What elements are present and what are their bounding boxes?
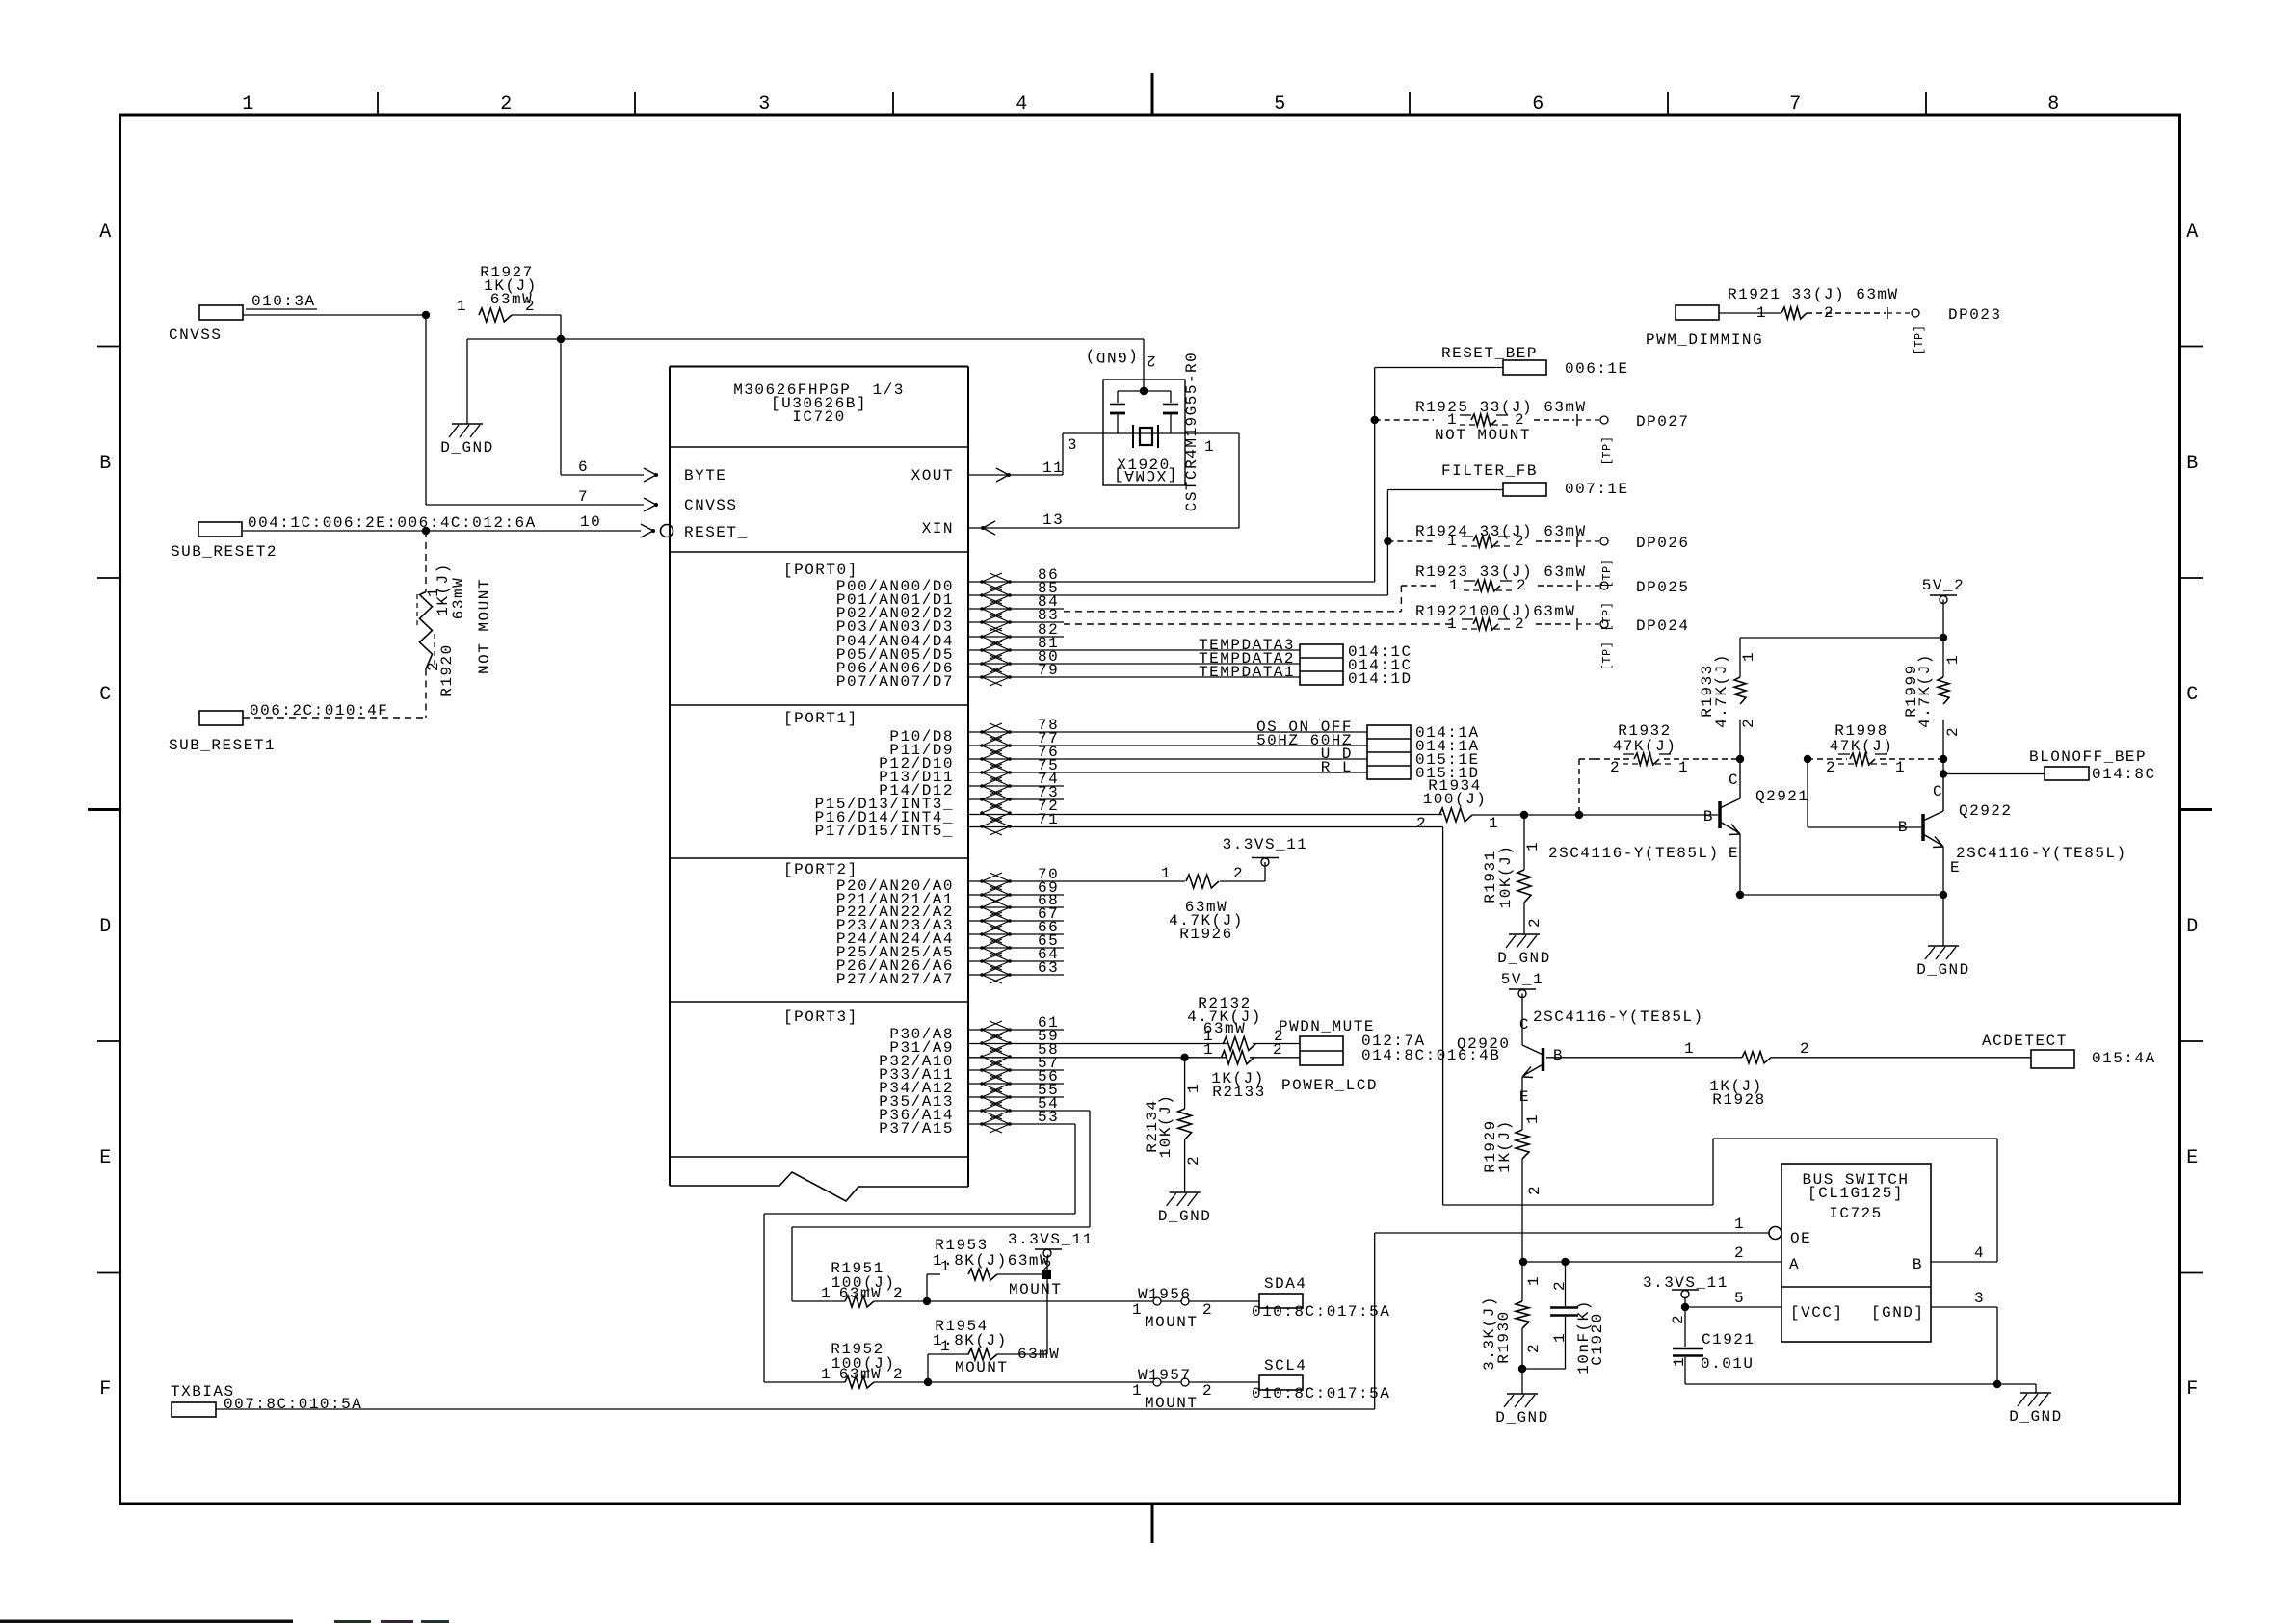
svg-text:[PORT0]: [PORT0] <box>783 562 858 579</box>
wire pin72 to R1934 <box>968 814 1442 816</box>
wire pin85 to FILTER_FB riser <box>968 594 1387 596</box>
resistor R1954 <box>928 1353 969 1355</box>
svg-text:F: F <box>99 1378 113 1400</box>
resistor R1930 vertical <box>1521 1262 1523 1301</box>
wire pin84 stub + dashed to R1923 branch <box>968 608 1064 610</box>
wire OE line from TXBIAS riser <box>1375 1232 1769 1234</box>
svg-text:63mW: 63mW <box>839 1366 882 1383</box>
svg-text:F: F <box>2186 1378 2200 1400</box>
svg-text:11: 11 <box>1042 459 1064 477</box>
wire R1928 to ACDETECT <box>1771 1057 2031 1059</box>
svg-text:[PORT2]: [PORT2] <box>783 861 858 878</box>
wire XIN pin 13 from crystal <box>968 527 1239 529</box>
svg-text:7: 7 <box>578 488 589 506</box>
svg-text:R1930: R1930 <box>1495 1310 1513 1364</box>
resistor R2133 <box>1222 1051 1254 1064</box>
svg-text:63mW: 63mW <box>1203 1020 1246 1037</box>
svg-text:014:1D: 014:1D <box>1348 670 1412 688</box>
connector TEMPDATA 3-way box <box>1300 644 1343 685</box>
wire junction to Q2921 base <box>1524 814 1718 816</box>
wire W1957 to SCL4 <box>1189 1381 1259 1383</box>
wire RESET_BEP to pin86 riser <box>1375 367 1503 369</box>
svg-text:DP026: DP026 <box>1636 535 1690 552</box>
svg-text:4.7K(J): 4.7K(J) <box>1713 653 1730 728</box>
node junction CNVSS/R1927 <box>422 311 430 319</box>
power 5V_2 <box>1930 594 1957 596</box>
connector SUB_RESET2 box <box>198 522 242 537</box>
svg-text:007:8C:010:5A: 007:8C:010:5A <box>224 1396 362 1413</box>
wire junction up to R1953 <box>926 1274 928 1301</box>
svg-text:007:1E: 007:1E <box>1565 481 1629 498</box>
wire SCL line <box>764 1381 845 1383</box>
svg-text:1.8K(J)63mW: 1.8K(J)63mW <box>933 1252 1050 1270</box>
ground D_GND below R2134 <box>1170 1191 1201 1193</box>
svg-text:[CL1G125]: [CL1G125] <box>1808 1185 1904 1202</box>
svg-text:4.7K(J): 4.7K(J) <box>1916 653 1934 728</box>
wire VCC pin 5 <box>1685 1306 1781 1308</box>
node junction dashed R1932 drop <box>1575 811 1583 819</box>
RESET_ active-low bubble <box>661 525 673 537</box>
svg-text:3: 3 <box>758 93 772 116</box>
svg-text:B: B <box>1913 1256 1923 1273</box>
wire emitter rail Q2921/Q2922 <box>1736 891 1744 899</box>
wire TXBIAS to OE riser <box>216 1408 1375 1410</box>
wire C1921 to GND rail <box>1685 1383 1997 1385</box>
svg-text:D_GND: D_GND <box>440 439 494 457</box>
svg-text:7: 7 <box>1789 93 1803 116</box>
crystal GND pin 2 lead <box>1143 339 1145 391</box>
wire pin83 stub + dashed to R1922 <box>968 621 1064 623</box>
svg-text:CNVSS: CNVSS <box>169 327 223 344</box>
resistor R1934 <box>1439 808 1472 822</box>
svg-text:OE: OE <box>1790 1230 1811 1247</box>
svg-text:010:8C:017:5A: 010:8C:017:5A <box>1252 1303 1390 1321</box>
wire R1932 dashed drop to base line <box>1578 759 1580 815</box>
svg-text:R1922100(J)63mW: R1922100(J)63mW <box>1415 603 1576 620</box>
svg-text:5: 5 <box>1274 93 1287 116</box>
wire pin71 corner down <box>968 826 1443 828</box>
grid row ticks left <box>97 346 119 348</box>
wire pin74 stub <box>968 785 1064 787</box>
op IC720 M30626FHPGP block outline <box>669 367 671 1187</box>
svg-text:[XCMA]: [XCMA] <box>1113 466 1177 484</box>
svg-text:W1956: W1956 <box>1138 1286 1192 1303</box>
node junction R1999/R1998 dashed <box>1940 755 1947 763</box>
node junction R1924 tap <box>1384 537 1391 545</box>
wire SDA line <box>792 1300 845 1302</box>
svg-text:[TP]: [TP] <box>1600 436 1614 466</box>
svg-text:47K(J): 47K(J) <box>1613 738 1677 755</box>
ground D_GND below R1931 <box>1509 933 1540 935</box>
resistor R1999 vertical <box>1942 638 1944 677</box>
svg-text:(GND): (GND) <box>1084 348 1138 365</box>
svg-text:8: 8 <box>2047 93 2061 116</box>
svg-text:ACDETECT: ACDETECT <box>1982 1033 2068 1050</box>
svg-text:1: 1 <box>1161 865 1172 882</box>
svg-text:E: E <box>1729 845 1739 862</box>
wire pin58 to R2133 <box>968 1057 1226 1059</box>
svg-text:10K(J): 10K(J) <box>1157 1094 1174 1159</box>
svg-text:2: 2 <box>1551 1280 1569 1291</box>
wire 3.3VS riser down to R1954 <box>1046 1274 1048 1354</box>
svg-text:R1926: R1926 <box>1179 926 1233 943</box>
test point DP025 <box>1576 580 1578 591</box>
ground D_GND bottom right <box>2020 1392 2051 1394</box>
svg-text:1: 1 <box>1678 759 1689 776</box>
test point DP026 <box>1576 536 1578 547</box>
connector PWDN_MUTE 2-way box <box>1300 1036 1343 1065</box>
wire R1934 to junction <box>1472 814 1524 816</box>
wire R1998 tap to Q2922 base <box>1807 759 1808 827</box>
wire pin86 to RESET_BEP riser <box>968 581 1375 583</box>
svg-text:D: D <box>99 916 113 938</box>
svg-text:1: 1 <box>1551 1332 1569 1343</box>
wire SDA to W1956 <box>927 1300 1153 1302</box>
ground D_GND below R1930 <box>1507 1393 1538 1395</box>
svg-text:71: 71 <box>1038 811 1059 828</box>
svg-text:2: 2 <box>1185 1155 1202 1165</box>
svg-text:014:8C: 014:8C <box>2092 766 2156 783</box>
svg-text:C: C <box>1933 783 1943 800</box>
svg-text:2SC4116-Y(TE85L): 2SC4116-Y(TE85L) <box>1533 1008 1704 1026</box>
node junction VCC <box>1681 1303 1689 1311</box>
svg-text:[GND]: [GND] <box>1871 1304 1925 1322</box>
crystal right capacitor <box>1170 391 1172 403</box>
svg-text:1.8K(J): 1.8K(J) <box>933 1332 1008 1349</box>
svg-text:R1921 33(J) 63mW: R1921 33(J) 63mW <box>1728 286 1899 303</box>
wire to ground <box>1942 895 1944 946</box>
capacitor C1921 <box>1684 1307 1686 1347</box>
wire SUB_RESET2 to IC720 RESET_ pin 10 <box>243 530 641 532</box>
wire CNVSS down to IC720 pin 7 <box>425 315 427 505</box>
test point DP023 <box>1887 307 1888 319</box>
svg-text:2: 2 <box>1826 759 1836 776</box>
wire pin81 to TEMPDATA3 <box>968 649 1300 651</box>
svg-text:XIN: XIN <box>922 520 954 537</box>
ground D_GND below Q2922 <box>1928 945 1959 947</box>
svg-text:B: B <box>99 453 113 475</box>
svg-text:2: 2 <box>1416 815 1427 832</box>
svg-text:1: 1 <box>1185 1083 1202 1093</box>
wire XOUT pin 11 to crystal <box>968 474 1063 476</box>
svg-text:C: C <box>1729 772 1739 789</box>
svg-text:C: C <box>99 684 113 706</box>
IC720 jagged bottom break <box>670 1172 968 1201</box>
svg-text:100(J): 100(J) <box>1423 791 1488 808</box>
svg-text:[PORT3]: [PORT3] <box>783 1008 858 1026</box>
wire pin77 to 50HZ_60HZ box <box>968 745 1367 746</box>
wire ground line to crystal <box>467 338 1144 340</box>
resistor R1924 row dashed <box>1387 540 1434 542</box>
svg-text:63mW: 63mW <box>450 577 467 619</box>
connector FILTER_FB box <box>1503 483 1546 496</box>
wire R1921 dashed to DP023 test point <box>1807 312 1886 314</box>
svg-text:TEMPDATA1: TEMPDATA1 <box>1199 664 1295 681</box>
node junction R1953/3.3VS <box>1042 1270 1051 1279</box>
IC720 section dividers <box>670 446 968 448</box>
svg-text:10K(J): 10K(J) <box>1497 845 1515 909</box>
svg-text:B: B <box>1553 1047 1564 1064</box>
svg-text:D_GND: D_GND <box>1495 1409 1549 1427</box>
svg-text:RESET_: RESET_ <box>684 524 749 541</box>
svg-text:R1924 33(J) 63mW: R1924 33(J) 63mW <box>1415 523 1587 540</box>
svg-text:010:8C:017:5A: 010:8C:017:5A <box>1252 1385 1390 1402</box>
wire Q2920 base to R1928 <box>1546 1057 1742 1059</box>
svg-text:010:3A: 010:3A <box>251 293 316 310</box>
svg-text:2: 2 <box>1526 917 1544 928</box>
connector TXBIAS box <box>172 1402 216 1417</box>
svg-text:DP023: DP023 <box>1948 306 2002 324</box>
resistor R1920 dashed vertical (not mount) <box>425 531 427 592</box>
resistor R1998 dashed row <box>1804 755 1811 763</box>
svg-text:P37/A15: P37/A15 <box>879 1120 954 1138</box>
svg-text:DP027: DP027 <box>1636 413 1690 431</box>
svg-text:2: 2 <box>1670 1314 1687 1324</box>
svg-text:1: 1 <box>1944 654 1962 665</box>
power 5V_1 <box>1509 988 1536 990</box>
wire R2132 to PWDN_MUTE box <box>1253 1043 1300 1045</box>
svg-text:006:1E: 006:1E <box>1565 360 1629 378</box>
node junction R1925 tap <box>1371 416 1379 424</box>
svg-text:5: 5 <box>1734 1290 1745 1307</box>
svg-text:1K(J): 1K(J) <box>1496 1119 1514 1173</box>
wire SCL to W1957 <box>928 1381 1153 1383</box>
svg-text:53: 53 <box>1038 1109 1059 1126</box>
svg-text:BYTE: BYTE <box>684 467 726 484</box>
wire R1927 pin2 corner down to BYTE <box>512 314 561 316</box>
svg-text:CNVSS: CNVSS <box>684 497 738 514</box>
wire pin75 to R_L box <box>968 772 1367 773</box>
svg-text:2: 2 <box>1526 1185 1544 1195</box>
svg-text:D_GND: D_GND <box>1916 961 1970 979</box>
connector SCL4 box <box>1259 1375 1303 1390</box>
node junction GND rail <box>1993 1380 2001 1388</box>
wire R2133 to PWDN_MUTE box <box>1250 1057 1300 1059</box>
svg-text:2: 2 <box>500 93 514 116</box>
svg-text:2SC4116-Y(TE85L): 2SC4116-Y(TE85L) <box>1548 845 1720 862</box>
svg-text:B: B <box>1898 819 1909 836</box>
wire pin61 stub <box>968 1029 1064 1031</box>
svg-text:47K(J): 47K(J) <box>1830 738 1894 755</box>
wire pin59 to R2132 <box>968 1043 1227 1045</box>
wire PWM_DIMMING to R1921 <box>1719 312 1781 314</box>
svg-text:B: B <box>1703 808 1714 825</box>
wire pin73 stub <box>968 798 1064 800</box>
node junction BLONOFF_BEP tap <box>1940 770 1947 777</box>
svg-text:1: 1 <box>1740 651 1757 662</box>
wire R1953 to 3.3VS riser <box>997 1273 1046 1275</box>
wires port3 stubs 57,56,55 <box>968 1069 1064 1071</box>
wire pin71 net to IC725 B-net <box>1443 1204 1713 1206</box>
svg-text:1: 1 <box>242 93 255 116</box>
svg-text:E: E <box>2186 1147 2200 1169</box>
svg-text:D_GND: D_GND <box>1158 1208 1212 1225</box>
crystal through wire <box>1063 432 1239 434</box>
svg-text:0.01U: 0.01U <box>1701 1355 1755 1373</box>
svg-text:Q2922: Q2922 <box>1959 802 2013 820</box>
svg-text:E: E <box>1519 1088 1530 1106</box>
svg-text:10: 10 <box>580 513 601 531</box>
wire to IC720 BYTE pin 6 <box>561 474 644 476</box>
svg-text:1: 1 <box>1524 841 1542 851</box>
svg-text:2: 2 <box>1734 1244 1745 1262</box>
svg-text:1: 1 <box>1489 815 1499 832</box>
svg-text:1: 1 <box>1525 1275 1543 1286</box>
resistor R1929 vertical <box>1521 1114 1523 1130</box>
wire GND rail stub <box>1997 1383 2036 1385</box>
svg-text:D: D <box>2186 916 2200 938</box>
svg-text:13: 13 <box>1042 511 1064 529</box>
wire pin76 to U_D box <box>968 758 1367 760</box>
svg-text:2: 2 <box>1525 1343 1543 1353</box>
svg-text:1: 1 <box>1756 304 1767 322</box>
wire R1926 to 3.3VS_11 riser <box>1220 880 1265 882</box>
node junction R1930 bottom <box>1518 1365 1526 1373</box>
grid column ticks top <box>377 92 379 115</box>
svg-text:R1920: R1920 <box>438 643 456 697</box>
node junction R1953 tap <box>923 1297 931 1305</box>
svg-text:2: 2 <box>1610 759 1621 776</box>
svg-text:2: 2 <box>1202 1301 1213 1319</box>
svg-text:Q2920: Q2920 <box>1457 1035 1511 1053</box>
svg-text:W1957: W1957 <box>1138 1367 1192 1384</box>
node junction R1930 top <box>1519 1258 1527 1266</box>
svg-text:2SC4116-Y(TE85L): 2SC4116-Y(TE85L) <box>1956 845 2127 862</box>
wires port2 stubs 69-63 <box>968 894 1064 896</box>
svg-text:2: 2 <box>1273 1041 1283 1059</box>
svg-text:DP025: DP025 <box>1636 579 1690 596</box>
wire pin54 route to SDA riser <box>968 1110 1090 1112</box>
svg-text:PWDN_MUTE: PWDN_MUTE <box>1279 1018 1375 1035</box>
svg-text:63mW: 63mW <box>839 1285 882 1302</box>
svg-text:R1925 33(J) 63mW: R1925 33(J) 63mW <box>1415 399 1587 416</box>
svg-text:PWM_DIMMING: PWM_DIMMING <box>1646 331 1763 349</box>
svg-text:1: 1 <box>1684 1040 1695 1058</box>
wire W1956 to SDA4 <box>1189 1300 1259 1302</box>
node junction R2134 tap <box>1180 1054 1188 1061</box>
svg-text:2: 2 <box>1800 1040 1810 1058</box>
wire pin80 to TEMPDATA2 <box>968 663 1300 665</box>
svg-text:[TP]: [TP] <box>1913 326 1926 355</box>
transistor Q2920 <box>1542 1048 1545 1071</box>
ground D_GND top-left <box>452 423 483 425</box>
test point DP024 <box>1576 618 1578 630</box>
svg-text:2: 2 <box>1233 865 1244 882</box>
node junction 5V_2 <box>1940 634 1947 641</box>
svg-text:R_L: R_L <box>1321 759 1353 776</box>
svg-text:4: 4 <box>1016 93 1029 116</box>
svg-text:1: 1 <box>1132 1301 1143 1319</box>
wire pin78 to OS_ON_OFF box <box>968 731 1367 733</box>
svg-text:C1921: C1921 <box>1702 1331 1755 1348</box>
svg-text:SDA4: SDA4 <box>1264 1275 1306 1293</box>
svg-text:CSTCR4M19G55-R0: CSTCR4M19G55-R0 <box>1183 352 1201 512</box>
svg-text:1: 1 <box>1734 1216 1745 1233</box>
svg-text:1: 1 <box>1203 1041 1214 1059</box>
svg-text:NOT MOUNT: NOT MOUNT <box>1435 427 1531 444</box>
svg-text:P27/AN27/A7: P27/AN27/A7 <box>836 971 954 988</box>
node junction R1954/SCL <box>924 1378 932 1386</box>
svg-text:A: A <box>2186 222 2200 244</box>
svg-text:A: A <box>99 222 113 244</box>
wire CNVSS to junction <box>243 314 426 316</box>
crystal X1920 outer box <box>1103 380 1185 485</box>
resistor R1925 row dashed (not mount) <box>1375 419 1434 421</box>
resistor R1921 <box>1781 307 1807 319</box>
svg-text:6: 6 <box>578 458 589 476</box>
wire pin53 route to SCL riser <box>968 1123 1075 1125</box>
wire R1930 to ground <box>1521 1369 1523 1394</box>
svg-text:3: 3 <box>1974 1290 1985 1307</box>
resistor R1931 vertical <box>1523 815 1525 870</box>
node junction R1933/R1932/R1998 <box>1736 755 1744 763</box>
connector RESET_BEP box <box>1503 360 1546 375</box>
svg-text:R1928: R1928 <box>1712 1091 1766 1109</box>
svg-text:P07/AN07/D7: P07/AN07/D7 <box>836 673 954 691</box>
wire SUB_RESET1 dashed to R1920 <box>243 717 426 719</box>
svg-text:1: 1 <box>821 1366 831 1383</box>
bottom edge printing artifact <box>0 1620 293 1623</box>
wire B pin 4 route <box>1931 1261 1997 1263</box>
svg-text:DP024: DP024 <box>1636 617 1690 635</box>
svg-text:[TP]: [TP] <box>1600 641 1614 671</box>
wire R1951 to junction <box>874 1300 927 1302</box>
svg-text:3.3VS_11: 3.3VS_11 <box>1223 836 1308 853</box>
grid row ticks right <box>2180 346 2203 348</box>
svg-text:3.3VS_11: 3.3VS_11 <box>1008 1231 1094 1248</box>
crystal internal top bus <box>1118 390 1171 392</box>
svg-text:SUB_RESET1: SUB_RESET1 <box>169 737 276 754</box>
svg-text:015:4A: 015:4A <box>2092 1050 2156 1067</box>
svg-text:[PORT1]: [PORT1] <box>783 710 858 727</box>
resistor R1923 row dashed <box>1401 585 1436 587</box>
resistor R1928 <box>1742 1052 1771 1063</box>
svg-text:XOUT: XOUT <box>911 467 954 484</box>
svg-text:3: 3 <box>1068 436 1078 454</box>
svg-text:MOUNT: MOUNT <box>1145 1314 1199 1331</box>
svg-text:2: 2 <box>1740 718 1757 728</box>
wire TXBIAS riser <box>1374 1233 1376 1409</box>
crystal left capacitor <box>1117 391 1119 403</box>
svg-text:6: 6 <box>1532 93 1545 116</box>
test point DP027 <box>1576 414 1578 426</box>
crystal resonator element <box>1132 425 1134 448</box>
svg-text:63mW: 63mW <box>490 291 533 308</box>
svg-text:MOUNT: MOUNT <box>1009 1281 1063 1298</box>
wire pin79 to TEMPDATA1 <box>968 676 1300 678</box>
svg-text:POWER_LCD: POWER_LCD <box>1281 1077 1378 1094</box>
svg-text:C: C <box>1519 1016 1530 1034</box>
svg-text:E: E <box>99 1147 113 1169</box>
node junction C1920 top <box>1561 1258 1569 1266</box>
resistor R2134 vertical <box>1184 1058 1186 1109</box>
svg-text:4: 4 <box>1974 1244 1985 1262</box>
svg-text:1: 1 <box>1524 1113 1542 1124</box>
svg-text:5V_2: 5V_2 <box>1922 577 1965 594</box>
wire pin84 dashed riser to R1923 <box>1400 586 1402 612</box>
resistor R1926 <box>1186 875 1219 888</box>
node junction ground line tap <box>557 335 565 343</box>
svg-text:R2133: R2133 <box>1212 1084 1266 1101</box>
border frame <box>120 115 2180 1504</box>
svg-text:2: 2 <box>1145 352 1155 369</box>
wire GND pin 3 <box>1931 1306 1997 1308</box>
svg-text:SCL4: SCL4 <box>1264 1357 1306 1374</box>
resistor R2132 <box>1224 1037 1256 1051</box>
svg-text:Q2921: Q2921 <box>1755 788 1809 805</box>
svg-text:D_GND: D_GND <box>1497 950 1551 967</box>
op IC725 bus switch box <box>1781 1164 1931 1342</box>
